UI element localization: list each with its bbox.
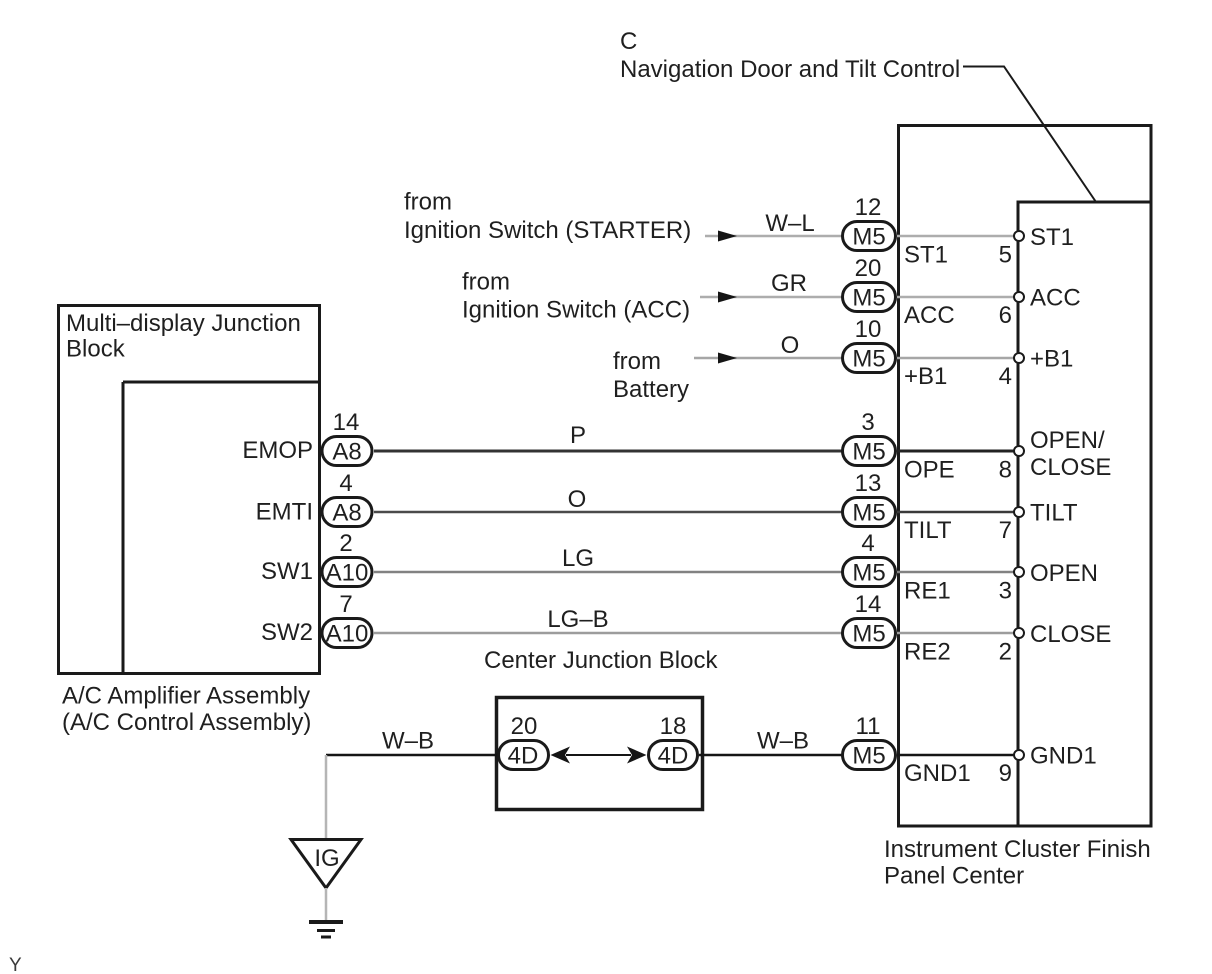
wire LG-B from A10 to M5 xyxy=(374,632,842,635)
wire TILT inside panel xyxy=(897,511,1015,514)
connector A10 (SW2 row) xyxy=(322,619,372,648)
connector M5 (TILT row) xyxy=(843,498,896,527)
svg-text:A10: A10 xyxy=(326,621,369,648)
svg-text:2: 2 xyxy=(339,530,352,557)
inner panel boundary vertical line xyxy=(1017,202,1020,826)
svg-text:14: 14 xyxy=(855,591,882,618)
svg-text:CLOSE: CLOSE xyxy=(1030,621,1111,648)
svg-text:A/C Amplifier Assembly: A/C Amplifier Assembly xyxy=(62,683,310,710)
wire W-B from ground junction to 4D xyxy=(326,754,498,757)
svg-text:+B1: +B1 xyxy=(1030,346,1073,373)
svg-text:A10: A10 xyxy=(326,560,369,587)
label from Battery xyxy=(613,348,689,403)
svg-text:Ignition Switch (STARTER): Ignition Switch (STARTER) xyxy=(404,217,691,244)
svg-text:M5: M5 xyxy=(852,621,885,648)
svg-text:Center Junction Block: Center Junction Block xyxy=(484,647,718,674)
pin +B1 circle xyxy=(1014,353,1024,363)
svg-text:4: 4 xyxy=(339,470,352,497)
svg-text:LG–B: LG–B xyxy=(547,606,608,633)
svg-text:A8: A8 xyxy=(332,500,361,527)
svg-text:ST1: ST1 xyxy=(904,242,948,269)
wire GR from ignition switch ACC to M5 xyxy=(700,296,842,299)
svg-text:11: 11 xyxy=(856,713,881,740)
svg-text:5: 5 xyxy=(999,242,1012,269)
svg-text:GND1: GND1 xyxy=(1030,743,1097,770)
label from Ignition Switch (ACC) xyxy=(462,269,690,324)
svg-text:M5: M5 xyxy=(852,560,885,587)
wire from IG triangle to earth ground xyxy=(325,888,328,920)
wire W-B from 4D to M5 xyxy=(699,754,842,757)
svg-text:OPE: OPE xyxy=(904,457,955,484)
svg-text:GR: GR xyxy=(771,270,807,297)
svg-text:4D: 4D xyxy=(658,743,689,770)
svg-text:M5: M5 xyxy=(852,743,885,770)
inner box A/C amplifier horizontal line xyxy=(123,381,319,384)
svg-text:TILT: TILT xyxy=(904,517,952,544)
label from Ignition Switch (STARTER) xyxy=(404,189,691,245)
connector A10 (SW1 row) xyxy=(322,558,372,587)
svg-text:6: 6 xyxy=(999,302,1012,329)
ground triangle IG xyxy=(291,840,361,889)
connector M5 (GND1 row) xyxy=(843,741,896,770)
connector A8 (EMTI row) xyxy=(322,498,372,527)
svg-text:W–B: W–B xyxy=(757,728,809,755)
svg-text:TILT: TILT xyxy=(1030,500,1078,527)
svg-text:EMOP: EMOP xyxy=(242,437,313,464)
svg-text:IG: IG xyxy=(314,845,339,872)
svg-text:20: 20 xyxy=(855,255,882,282)
svg-text:14: 14 xyxy=(333,409,360,436)
wire P from A8 to M5 xyxy=(374,450,842,453)
svg-text:Panel Center: Panel Center xyxy=(884,863,1024,890)
svg-text:3: 3 xyxy=(999,578,1012,605)
wire O from A8 to M5 xyxy=(374,511,842,514)
svg-text:13: 13 xyxy=(855,470,882,497)
svg-text:OPEN: OPEN xyxy=(1030,560,1098,587)
box Instrument Cluster Finish Panel Center (outer) xyxy=(899,126,1152,827)
label Multi-display Junction Block xyxy=(66,310,301,363)
svg-text:O: O xyxy=(568,486,587,513)
wire ST1 inside panel xyxy=(897,235,1015,238)
label Instrument Cluster Finish Panel Center xyxy=(884,836,1151,890)
svg-text:from: from xyxy=(613,348,661,375)
svg-text:7: 7 xyxy=(339,591,352,618)
wire LG from A10 to M5 xyxy=(374,571,842,574)
node C label xyxy=(620,28,960,83)
svg-text:4D: 4D xyxy=(508,743,539,770)
arrow on W-L wire xyxy=(718,231,737,242)
svg-text:M5: M5 xyxy=(852,346,885,373)
svg-text:3: 3 xyxy=(861,409,874,436)
connector M5 (+B1 row) xyxy=(843,344,896,373)
connector M5 (RE2 row) xyxy=(843,619,896,648)
svg-text:SW1: SW1 xyxy=(261,558,313,585)
wire W-L from ignition switch starter to M5 xyxy=(705,235,842,238)
wire OPE inside panel xyxy=(897,450,1015,453)
svg-text:7: 7 xyxy=(999,517,1012,544)
svg-text:4: 4 xyxy=(861,530,874,557)
svg-text:M5: M5 xyxy=(852,500,885,527)
svg-text:OPEN/: OPEN/ xyxy=(1030,427,1105,454)
wire from W-B junction down to IG ground xyxy=(325,755,328,838)
svg-text:CLOSE: CLOSE xyxy=(1030,454,1111,481)
inner box A/C amplifier vertical line xyxy=(122,382,125,674)
pin TILT circle xyxy=(1014,507,1024,517)
connector 4D (left) xyxy=(499,741,549,770)
svg-text:W–L: W–L xyxy=(765,210,814,237)
wire ACC inside panel xyxy=(897,296,1015,299)
pin OPEN circle xyxy=(1014,567,1024,577)
svg-text:M5: M5 xyxy=(852,224,885,251)
arrow on GR wire xyxy=(718,292,737,303)
svg-text:Instrument Cluster Finish: Instrument Cluster Finish xyxy=(884,836,1151,863)
label A/C Amplifier Assembly xyxy=(62,683,311,737)
svg-text:GND1: GND1 xyxy=(904,760,971,787)
svg-text:ACC: ACC xyxy=(904,302,955,329)
connector M5 (ST1 row) xyxy=(843,222,896,251)
svg-text:EMTI: EMTI xyxy=(256,499,313,526)
svg-text:9: 9 xyxy=(999,760,1012,787)
svg-text:12: 12 xyxy=(855,194,882,221)
pin ST1 circle xyxy=(1014,231,1024,241)
svg-text:W–B: W–B xyxy=(382,728,434,755)
svg-text:ACC: ACC xyxy=(1030,285,1081,312)
svg-text:2: 2 xyxy=(999,639,1012,666)
wire O from battery to M5 xyxy=(694,357,842,360)
svg-text:+B1: +B1 xyxy=(904,363,947,390)
svg-text:RE2: RE2 xyxy=(904,639,951,666)
wire RE1 inside panel xyxy=(897,571,1015,574)
svg-text:M5: M5 xyxy=(852,439,885,466)
svg-text:from: from xyxy=(462,269,510,296)
pin CLOSE circle xyxy=(1014,628,1024,638)
arrow right-pointing between 4D connectors xyxy=(627,747,647,764)
svg-text:C: C xyxy=(620,28,637,55)
svg-text:Navigation Door and Tilt Contr: Navigation Door and Tilt Control xyxy=(620,56,960,83)
pin ACC circle xyxy=(1014,292,1024,302)
pin GND1 circle xyxy=(1014,750,1024,760)
connector A8 (EMOP row) xyxy=(322,437,372,466)
svg-text:8: 8 xyxy=(999,457,1012,484)
svg-text:LG: LG xyxy=(562,545,594,572)
svg-text:P: P xyxy=(570,422,586,449)
svg-text:Y: Y xyxy=(9,955,22,974)
svg-text:SW2: SW2 xyxy=(261,619,313,646)
arrow left-pointing between 4D connectors xyxy=(551,747,571,764)
svg-text:O: O xyxy=(781,332,800,359)
svg-text:Ignition Switch (ACC): Ignition Switch (ACC) xyxy=(462,297,690,324)
svg-text:10: 10 xyxy=(855,316,882,343)
box Multi-display Junction Block (outer) xyxy=(59,306,320,674)
earth ground symbol xyxy=(309,922,343,937)
wire between 4D connectors xyxy=(566,754,631,756)
svg-text:Multi–display Junction: Multi–display Junction xyxy=(66,310,301,337)
svg-text:18: 18 xyxy=(660,713,687,740)
connector M5 (RE1 row) xyxy=(843,558,896,587)
pin name OPEN/CLOSE xyxy=(1030,427,1111,481)
svg-text:Battery: Battery xyxy=(613,376,689,403)
svg-text:(A/C Control Assembly): (A/C Control Assembly) xyxy=(62,709,311,736)
wire RE2 inside panel xyxy=(897,632,1015,635)
svg-text:ST1: ST1 xyxy=(1030,224,1074,251)
wire GND1 inside panel xyxy=(897,754,1015,757)
svg-text:Block: Block xyxy=(66,336,126,363)
arrow on battery O wire xyxy=(718,353,737,364)
inner panel boundary horizontal line xyxy=(1017,201,1152,204)
connector M5 (OPE row) xyxy=(843,437,896,466)
svg-text:20: 20 xyxy=(511,713,538,740)
svg-text:A8: A8 xyxy=(332,439,361,466)
connector M5 (ACC row) xyxy=(843,283,896,312)
svg-text:from: from xyxy=(404,189,452,216)
svg-text:RE1: RE1 xyxy=(904,578,951,605)
connector 4D (right) xyxy=(649,741,698,770)
wire +B1 inside panel xyxy=(897,357,1015,360)
box Center Junction Block xyxy=(497,698,703,810)
svg-text:M5: M5 xyxy=(852,285,885,312)
pin OPEN/CLOSE circle xyxy=(1014,446,1024,456)
leader line from label C to instrument cluster panel xyxy=(963,67,1096,203)
svg-text:4: 4 xyxy=(999,363,1012,390)
